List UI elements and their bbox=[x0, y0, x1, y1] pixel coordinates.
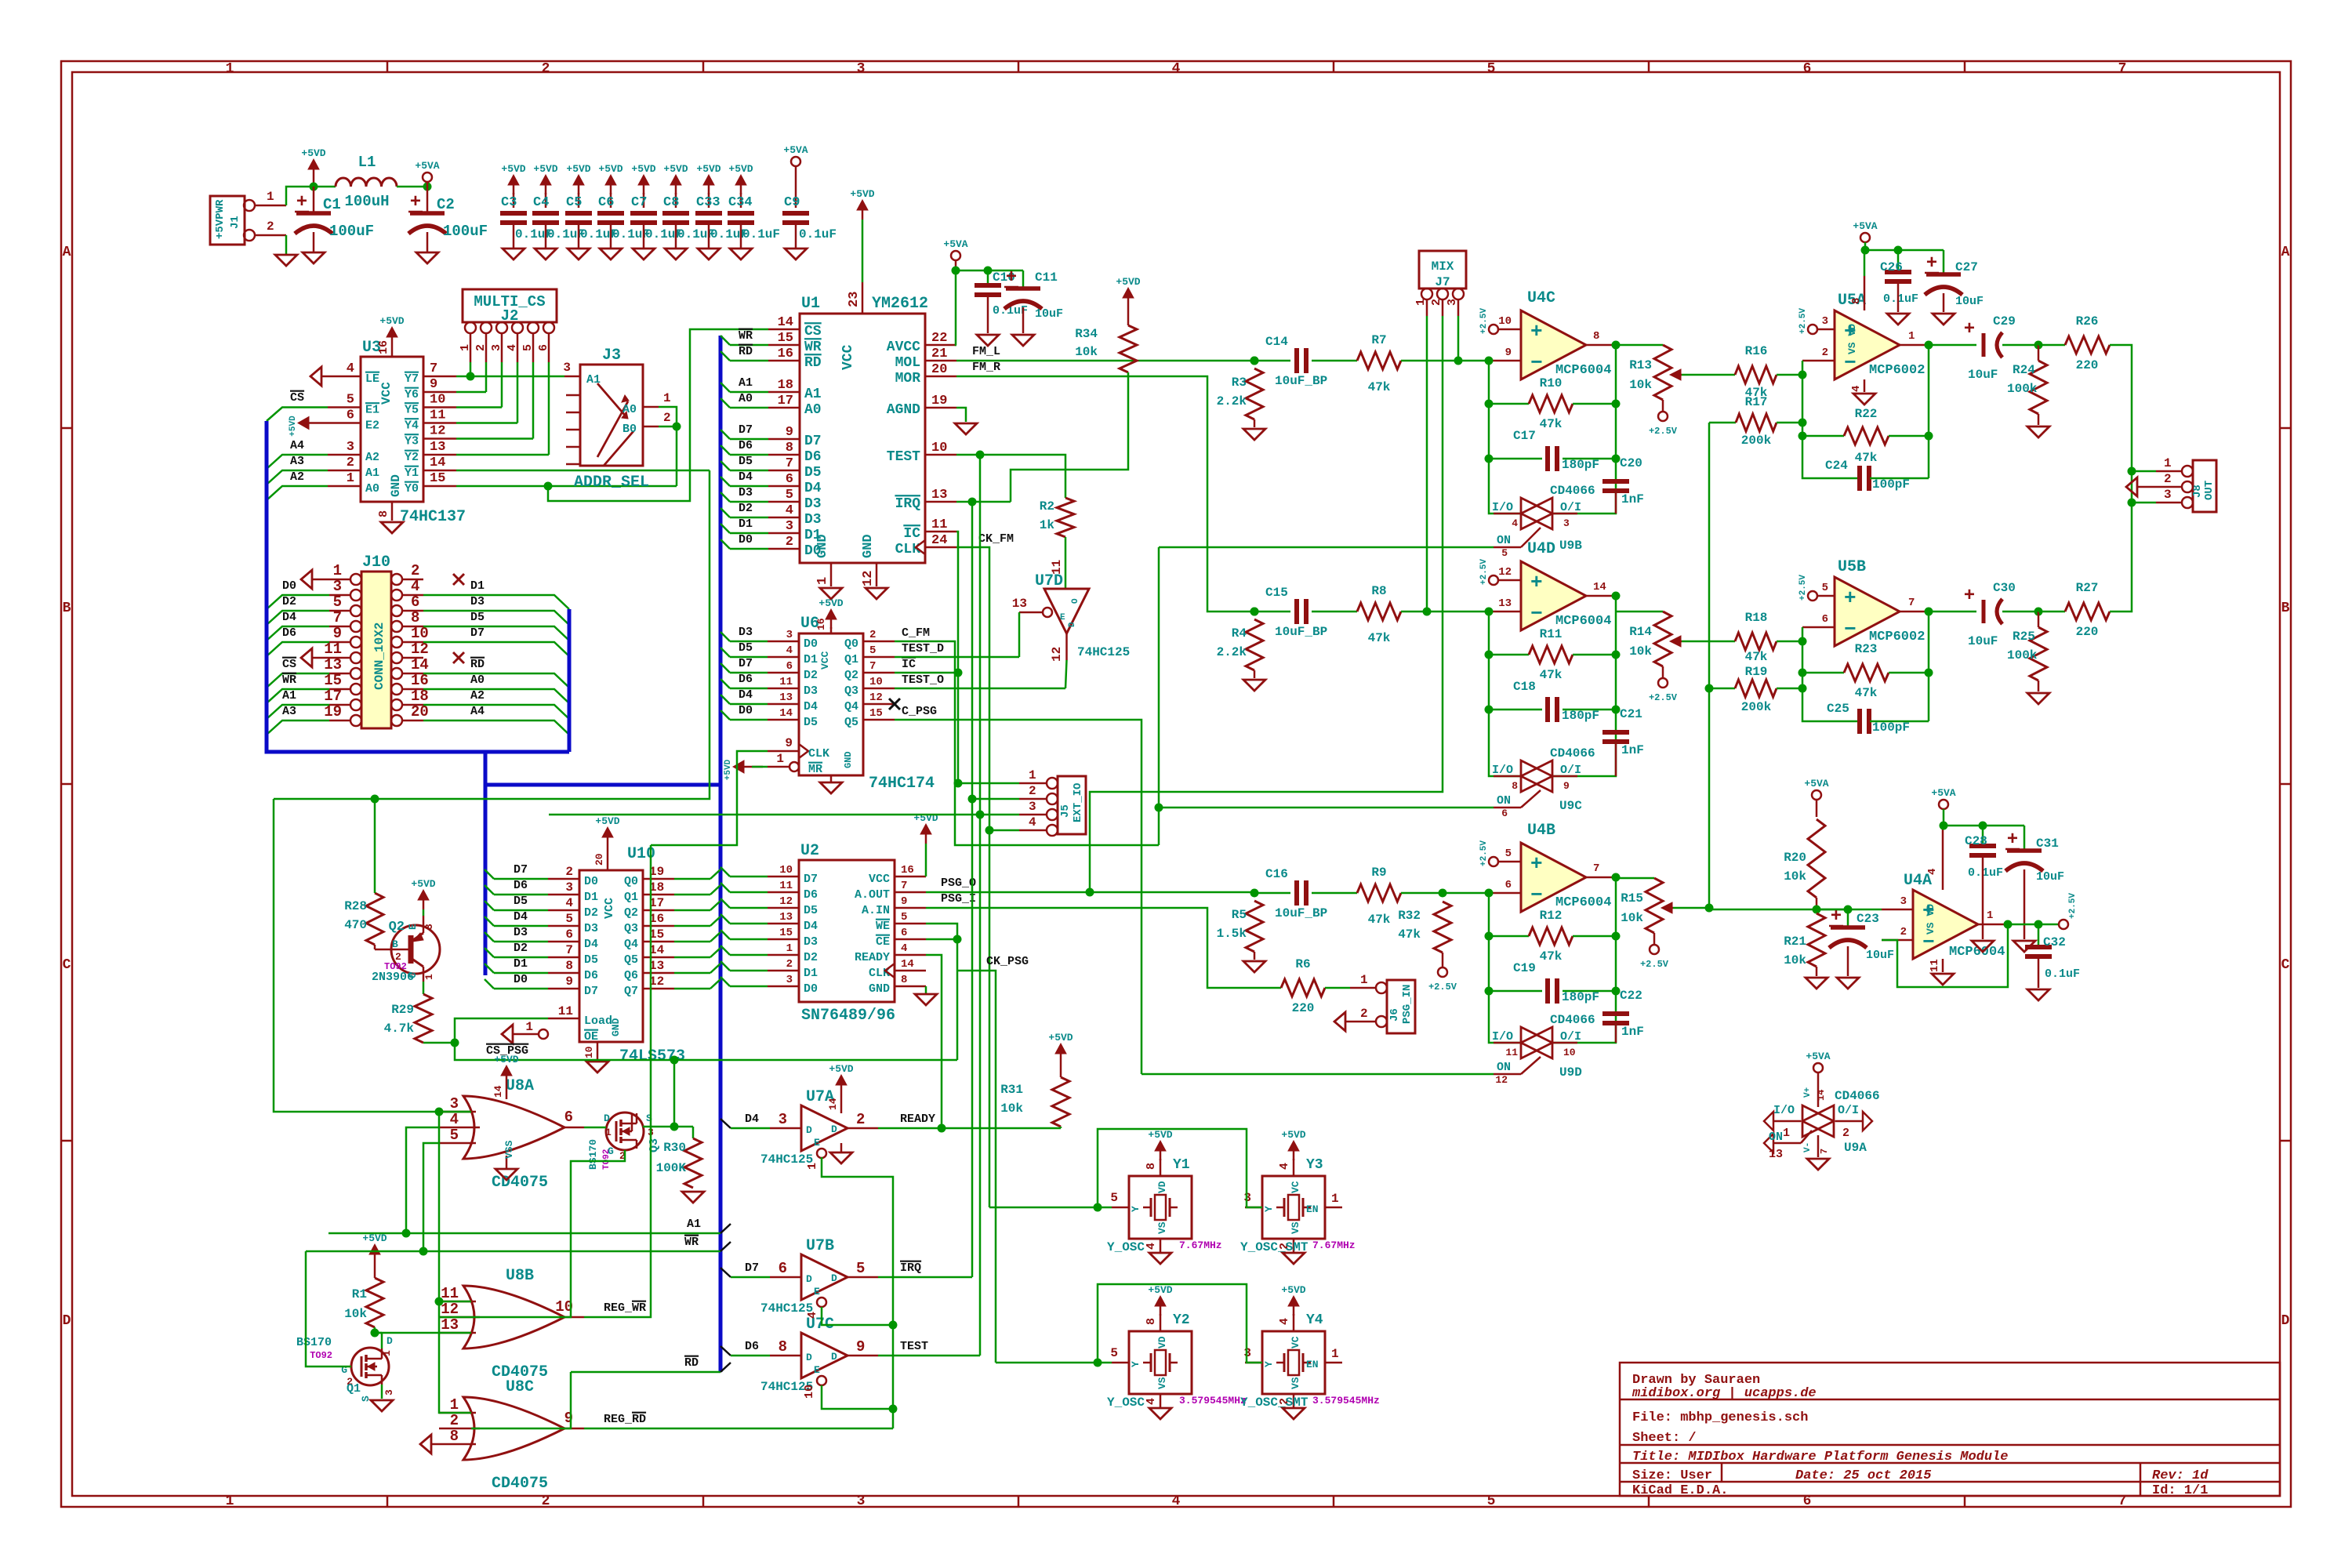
svg-text:Q0: Q0 bbox=[624, 875, 638, 888]
svg-text:2: 2 bbox=[1360, 1007, 1368, 1021]
resistor R1 10k bbox=[374, 1253, 376, 1264]
svg-text:D6: D6 bbox=[804, 449, 822, 465]
bus entry bbox=[710, 869, 720, 879]
wire bbox=[267, 486, 328, 500]
svg-text:D1: D1 bbox=[514, 957, 528, 971]
svg-text:FM_L: FM_L bbox=[972, 345, 1000, 358]
svg-text:O/I: O/I bbox=[1560, 1030, 1581, 1044]
resistor R6 220 bbox=[1281, 979, 1325, 996]
ground-flag at U3 LE bbox=[310, 367, 321, 386]
svg-text:4: 4 bbox=[1145, 1243, 1158, 1250]
svg-text:REG_: REG_ bbox=[604, 1301, 633, 1315]
svg-text:LE: LE bbox=[365, 372, 379, 386]
bus to U10 bbox=[484, 752, 488, 975]
wire J7.3 bbox=[1457, 316, 1460, 361]
capacitor C1 100uF bbox=[313, 187, 315, 213]
svg-text:A3: A3 bbox=[290, 455, 304, 468]
svg-text:I/O: I/O bbox=[1492, 501, 1513, 514]
svg-text:VD: VD bbox=[1156, 1181, 1168, 1193]
svg-text:8: 8 bbox=[1850, 298, 1863, 304]
U9A gnd pin7 bbox=[1817, 1135, 1820, 1157]
svg-text:100uF: 100uF bbox=[329, 223, 374, 240]
svg-text:2: 2 bbox=[1822, 347, 1828, 359]
svg-text:6: 6 bbox=[411, 593, 419, 611]
svg-text:MCP6002: MCP6002 bbox=[1869, 630, 1925, 644]
svg-text:10uF: 10uF bbox=[2036, 870, 2064, 884]
wire bbox=[267, 642, 329, 656]
resistor R23 47k bbox=[1802, 672, 1844, 674]
svg-text:+2.5V: +2.5V bbox=[1640, 959, 1669, 970]
svg-text:12: 12 bbox=[1050, 647, 1064, 662]
svg-text:U9C: U9C bbox=[1559, 799, 1582, 813]
junction bbox=[1925, 608, 1933, 616]
svg-text:5: 5 bbox=[565, 912, 573, 926]
bus right J10 bbox=[568, 609, 572, 752]
svg-text:5: 5 bbox=[1110, 1191, 1118, 1205]
svg-text:6: 6 bbox=[1803, 61, 1812, 77]
svg-text:3: 3 bbox=[1029, 800, 1036, 814]
wire U5A feedback right bbox=[1928, 345, 1930, 478]
U8A VSS pin7 bbox=[506, 1156, 508, 1168]
svg-text:4: 4 bbox=[506, 344, 519, 351]
svg-text:A4: A4 bbox=[290, 439, 304, 452]
ground bbox=[730, 249, 752, 260]
svg-text:10: 10 bbox=[869, 676, 883, 688]
svg-text:C22: C22 bbox=[1620, 989, 1642, 1003]
svg-text:10uF: 10uF bbox=[1955, 295, 1984, 308]
svg-text:+: + bbox=[410, 192, 421, 213]
wire ON bbox=[1521, 1057, 1541, 1074]
wire IRQ net bbox=[956, 501, 1011, 503]
svg-text:1: 1 bbox=[1360, 973, 1368, 987]
resistor R26 220 bbox=[2038, 344, 2065, 347]
svg-text:C11: C11 bbox=[1035, 270, 1058, 285]
svg-text:5: 5 bbox=[1501, 547, 1508, 559]
svg-text:20: 20 bbox=[931, 362, 947, 377]
svg-text:A2: A2 bbox=[470, 689, 485, 702]
svg-text:5: 5 bbox=[1822, 582, 1828, 594]
svg-text:8: 8 bbox=[1593, 330, 1599, 343]
svg-text:12: 12 bbox=[411, 641, 429, 658]
ground-flag J10 pin11 bbox=[301, 648, 312, 667]
svg-text:3: 3 bbox=[1900, 895, 1907, 908]
wire R15 wiper bbox=[1673, 907, 1709, 909]
svg-text:47k: 47k bbox=[1540, 417, 1563, 431]
svg-text:CK_FM: CK_FM bbox=[978, 532, 1014, 546]
wire TEST net bbox=[956, 455, 1065, 498]
junction bbox=[670, 1056, 679, 1065]
svg-text:10k: 10k bbox=[344, 1307, 367, 1321]
svg-text:1: 1 bbox=[381, 1350, 393, 1356]
wire AGND bbox=[956, 408, 966, 422]
junction bbox=[1612, 932, 1621, 941]
resistor R18 47k bbox=[1735, 633, 1777, 650]
svg-text:VC: VC bbox=[1290, 1181, 1301, 1193]
junction bbox=[1485, 400, 1494, 408]
svg-text:3: 3 bbox=[779, 1111, 787, 1128]
svg-text:C23: C23 bbox=[1857, 912, 1879, 926]
connector J10 CONN_10X2 bbox=[361, 572, 391, 728]
svg-text:3: 3 bbox=[490, 344, 503, 351]
svg-text:R31: R31 bbox=[1000, 1083, 1023, 1097]
wire bbox=[494, 925, 548, 927]
junction bbox=[889, 1321, 898, 1330]
bus entry D0 bbox=[720, 977, 730, 986]
wire Y7 to J3.A1 bbox=[456, 376, 564, 378]
svg-text:TO92: TO92 bbox=[602, 1149, 612, 1170]
wire bbox=[956, 270, 1023, 272]
svg-text:D: D bbox=[1068, 622, 1077, 627]
wire REG_WR bbox=[584, 845, 651, 1317]
wire bbox=[1065, 537, 1067, 589]
svg-text:3: 3 bbox=[333, 578, 342, 595]
capacitor C6 0.1uF bbox=[610, 193, 612, 208]
svg-text:D5: D5 bbox=[739, 641, 753, 655]
wire Y2-Y4 link bbox=[1098, 1284, 1262, 1363]
wire Y0 bbox=[456, 485, 677, 488]
ground bbox=[1806, 978, 1828, 989]
wire TEST_O bbox=[895, 688, 1065, 690]
svg-text:U5B: U5B bbox=[1838, 558, 1866, 576]
svg-text:5: 5 bbox=[347, 393, 354, 408]
svg-text:ON: ON bbox=[1497, 1061, 1511, 1074]
svg-text:5: 5 bbox=[521, 344, 535, 351]
svg-text:R11: R11 bbox=[1540, 627, 1563, 641]
buffer U7C 74HC125 bbox=[801, 1333, 848, 1378]
bus entry bbox=[710, 979, 720, 989]
svg-text:Y5: Y5 bbox=[405, 404, 419, 417]
svg-text:Y6: Y6 bbox=[405, 388, 419, 401]
svg-text:5: 5 bbox=[450, 1127, 459, 1144]
svg-text:ON: ON bbox=[1769, 1131, 1783, 1144]
svg-text:AGND: AGND bbox=[887, 402, 920, 418]
svg-text:C14: C14 bbox=[1265, 335, 1288, 349]
wire bbox=[285, 235, 288, 255]
svg-text:+5VD: +5VD bbox=[1281, 1284, 1305, 1296]
svg-text:21: 21 bbox=[931, 347, 947, 361]
svg-text:6: 6 bbox=[564, 1109, 573, 1126]
svg-text:GND: GND bbox=[389, 474, 403, 497]
svg-text:1: 1 bbox=[423, 974, 435, 980]
wire bbox=[267, 611, 329, 625]
svg-text:+2.5V: +2.5V bbox=[1479, 308, 1489, 334]
connector J7 MIX bbox=[1419, 251, 1466, 289]
svg-text:9: 9 bbox=[856, 1338, 865, 1356]
svg-text:VS: VS bbox=[1156, 1221, 1168, 1234]
svg-text:R8: R8 bbox=[1371, 584, 1386, 598]
svg-text:Q7: Q7 bbox=[624, 985, 638, 998]
junction bbox=[1798, 637, 1807, 646]
svg-text:+5VA: +5VA bbox=[1931, 787, 1955, 799]
svg-text:PSG_I: PSG_I bbox=[941, 892, 976, 906]
+2.5V below R13 bbox=[1662, 400, 1664, 412]
ground bbox=[2027, 426, 2049, 437]
svg-text:C33: C33 bbox=[696, 195, 720, 210]
svg-text:220: 220 bbox=[1292, 1001, 1315, 1015]
wire PSG_I bbox=[926, 908, 1281, 988]
wire bbox=[494, 878, 548, 880]
junction bbox=[984, 267, 993, 275]
svg-text:9: 9 bbox=[786, 425, 793, 440]
svg-text:2.2k: 2.2k bbox=[1217, 394, 1247, 408]
svg-text:D2: D2 bbox=[282, 595, 296, 608]
svg-text:VCC: VCC bbox=[869, 873, 890, 886]
svg-text:10uF_BP: 10uF_BP bbox=[1275, 374, 1327, 388]
power +5VD for C7 bbox=[643, 183, 645, 194]
svg-text:+2.5V: +2.5V bbox=[1649, 426, 1678, 437]
power +5VD U7A pin14 bbox=[840, 1083, 843, 1094]
svg-text:3: 3 bbox=[857, 1494, 866, 1509]
wire bbox=[267, 626, 329, 641]
capacitor C27 10uF bbox=[1943, 250, 1945, 274]
svg-text:D5: D5 bbox=[804, 465, 822, 481]
wire C_FM bbox=[895, 641, 1159, 845]
svg-text:R19: R19 bbox=[1745, 665, 1768, 679]
svg-text:15: 15 bbox=[779, 927, 793, 939]
resistor R9 47k bbox=[1312, 892, 1357, 895]
svg-text:15: 15 bbox=[778, 331, 793, 346]
svg-text:5: 5 bbox=[1505, 848, 1512, 860]
svg-text:1: 1 bbox=[450, 1396, 459, 1414]
junction bbox=[544, 482, 553, 491]
wire bbox=[730, 703, 768, 706]
wire FM_L bbox=[956, 360, 1254, 362]
wire bbox=[494, 941, 548, 943]
svg-text:IRQ: IRQ bbox=[900, 1261, 921, 1275]
svg-text:2: 2 bbox=[1900, 926, 1907, 938]
svg-text:5: 5 bbox=[1110, 1346, 1118, 1360]
wire U7B out IRQ bbox=[878, 1276, 972, 1279]
svg-text:C34: C34 bbox=[728, 195, 753, 210]
svg-text:CS: CS bbox=[290, 391, 304, 405]
svg-text:+5VD: +5VD bbox=[598, 163, 622, 175]
wire J5.4 bbox=[989, 829, 1019, 832]
oscillator Y1 bbox=[1129, 1176, 1192, 1239]
svg-text:Y2: Y2 bbox=[405, 451, 419, 464]
svg-text:E1: E1 bbox=[365, 404, 379, 417]
U6 CLK pin9 bbox=[768, 750, 799, 753]
svg-text:+5VD: +5VD bbox=[850, 188, 874, 200]
ground bbox=[955, 423, 977, 434]
svg-text:200k: 200k bbox=[1741, 700, 1772, 714]
svg-text:OE: OE bbox=[584, 1030, 598, 1044]
bus entry D3 bbox=[720, 930, 730, 939]
+2.5V at U4B+ bbox=[1489, 857, 1498, 866]
svg-text:0.1uF: 0.1uF bbox=[2045, 967, 2080, 981]
svg-text:4: 4 bbox=[786, 503, 793, 518]
wire J8.3 bbox=[2132, 502, 2156, 504]
wire CS to bus bbox=[267, 408, 328, 422]
svg-text:+5VD: +5VD bbox=[631, 163, 655, 175]
op-amp U4D MCP6004 bbox=[1521, 561, 1586, 630]
resistor R28 470 bbox=[366, 893, 383, 945]
svg-text:18: 18 bbox=[411, 688, 429, 705]
wire U4A feedback bbox=[1882, 924, 2008, 987]
svg-text:8: 8 bbox=[1512, 780, 1518, 792]
svg-text:1: 1 bbox=[806, 1163, 819, 1170]
or-gate U8B CD4075 bbox=[463, 1286, 564, 1348]
svg-text:D0: D0 bbox=[514, 973, 528, 986]
ground bbox=[1837, 978, 1859, 989]
clock wedge U1 CLK bbox=[916, 540, 925, 554]
svg-text:AVCC: AVCC bbox=[887, 339, 920, 355]
U9A ON pin bbox=[1801, 1131, 1812, 1143]
analog switch U9D CD4066 bbox=[1521, 1027, 1552, 1058]
connector J1 +5VPWR bbox=[210, 196, 245, 245]
wire bbox=[730, 985, 768, 988]
svg-text:D7: D7 bbox=[739, 423, 753, 437]
wire bbox=[274, 798, 375, 800]
svg-text:14: 14 bbox=[1816, 1090, 1827, 1101]
wire CS to U8A bbox=[274, 799, 471, 1112]
svg-text:1: 1 bbox=[776, 752, 784, 766]
wire bbox=[730, 501, 768, 503]
wire WE/CE bbox=[926, 924, 957, 1060]
svg-text:VSS: VSS bbox=[503, 1140, 515, 1159]
svg-text:8: 8 bbox=[1145, 1318, 1158, 1325]
svg-text:8: 8 bbox=[411, 609, 419, 626]
svg-text:16: 16 bbox=[411, 672, 429, 689]
junction bbox=[1485, 987, 1494, 996]
svg-text:A: A bbox=[2281, 245, 2290, 260]
svg-text:CS: CS bbox=[804, 324, 822, 339]
svg-text:Q2: Q2 bbox=[844, 669, 858, 682]
svg-text:R18: R18 bbox=[1745, 611, 1768, 625]
svg-text:+5VA: +5VA bbox=[943, 238, 967, 250]
svg-text:7: 7 bbox=[333, 609, 342, 626]
junction bbox=[419, 1247, 428, 1256]
bus entry D5 bbox=[720, 898, 730, 908]
svg-text:7: 7 bbox=[1819, 1149, 1830, 1154]
wire Q1 source to gnd bbox=[381, 1385, 383, 1399]
svg-text:13: 13 bbox=[441, 1316, 459, 1334]
potentiometer R13 10k bbox=[1616, 344, 1663, 347]
svg-text:−: − bbox=[1530, 351, 1543, 375]
svg-text:5: 5 bbox=[333, 593, 342, 611]
svg-text:FM_R: FM_R bbox=[972, 361, 1000, 374]
svg-text:10: 10 bbox=[803, 1385, 816, 1399]
svg-text:3: 3 bbox=[1822, 315, 1828, 328]
svg-text:U4D: U4D bbox=[1527, 540, 1555, 558]
svg-text:D4: D4 bbox=[282, 611, 296, 624]
svg-text:10: 10 bbox=[411, 625, 429, 642]
svg-text:+5VA: +5VA bbox=[1806, 1051, 1830, 1062]
svg-text:7: 7 bbox=[786, 456, 793, 471]
wire J5.2 bbox=[972, 798, 1019, 800]
capacitor C9 0.1uF bbox=[795, 166, 797, 208]
resistor R20 10k bbox=[1812, 790, 1821, 800]
svg-text:A2: A2 bbox=[290, 470, 304, 484]
bus entry bbox=[485, 869, 494, 879]
svg-text:R32: R32 bbox=[1398, 909, 1421, 923]
svg-text:C9: C9 bbox=[784, 195, 800, 210]
svg-text:1nF: 1nF bbox=[1621, 1025, 1644, 1039]
svg-text:CE: CE bbox=[876, 935, 890, 949]
svg-text:R10: R10 bbox=[1540, 376, 1563, 390]
svg-text:U9D: U9D bbox=[1559, 1065, 1582, 1080]
power +5VD bbox=[313, 168, 315, 179]
wire bbox=[730, 688, 768, 690]
svg-text:+2.5V: +2.5V bbox=[2068, 893, 2078, 919]
junction bbox=[1155, 804, 1163, 812]
svg-text:D: D bbox=[831, 1351, 837, 1363]
U6 MR pin1 bbox=[789, 762, 799, 771]
svg-text:CD4075: CD4075 bbox=[492, 1174, 548, 1192]
svg-text:15: 15 bbox=[869, 707, 883, 720]
wire bbox=[674, 909, 710, 912]
svg-text:14: 14 bbox=[901, 958, 914, 971]
svg-text:47k: 47k bbox=[1398, 927, 1421, 942]
svg-text:10: 10 bbox=[583, 1046, 595, 1058]
svg-text:1: 1 bbox=[459, 344, 472, 351]
capacitor C21 1nF bbox=[1602, 730, 1629, 735]
bus entry bbox=[720, 710, 730, 720]
bus entry bbox=[720, 1346, 731, 1356]
ground bbox=[1853, 394, 1875, 405]
power +5VA for C9 bbox=[791, 157, 800, 166]
junction bbox=[1485, 608, 1494, 616]
svg-text:+5VD: +5VD bbox=[289, 416, 298, 437]
+2.5V below R15 bbox=[1653, 933, 1656, 945]
wire J3 outputs tied bbox=[659, 407, 677, 486]
svg-text:4: 4 bbox=[1278, 1318, 1291, 1325]
wire bbox=[423, 642, 569, 656]
wire RD to U8C.2 bbox=[471, 1372, 571, 1428]
svg-text:J5: J5 bbox=[1059, 804, 1072, 818]
svg-text:1k: 1k bbox=[1040, 518, 1055, 532]
svg-text:13: 13 bbox=[430, 440, 445, 455]
svg-text:10uF_BP: 10uF_BP bbox=[1275, 625, 1327, 639]
wire R13 wiper to R16 bbox=[1682, 374, 1735, 376]
bus to U1 bbox=[485, 783, 720, 787]
wire A1 row bbox=[328, 1232, 720, 1235]
ground bbox=[1933, 314, 1955, 325]
svg-text:47k: 47k bbox=[1855, 686, 1878, 700]
svg-text:74HC137: 74HC137 bbox=[400, 508, 466, 526]
svg-text:EN: EN bbox=[1306, 1359, 1319, 1370]
svg-text:74HC125: 74HC125 bbox=[1077, 645, 1130, 659]
svg-text:C5: C5 bbox=[566, 195, 582, 210]
svg-text:R5: R5 bbox=[1232, 908, 1247, 922]
IC U6 74HC174 bbox=[799, 633, 863, 775]
connector J5 EXT_IO bbox=[1058, 776, 1086, 834]
svg-text:R22: R22 bbox=[1855, 407, 1878, 421]
capacitor C2 100uF bbox=[426, 187, 429, 213]
svg-text:D2: D2 bbox=[739, 502, 753, 515]
U5A power pins bbox=[1864, 276, 1866, 310]
wire Y1 bbox=[456, 470, 710, 472]
bus entry bbox=[710, 964, 720, 973]
ground bbox=[371, 1400, 393, 1411]
no-connect U6 Q4 bbox=[889, 699, 900, 710]
svg-text:D6: D6 bbox=[739, 673, 753, 686]
wire bbox=[673, 1060, 676, 1127]
U3 pin8 ground bbox=[391, 502, 394, 521]
junction bbox=[1086, 888, 1094, 897]
wire bbox=[286, 187, 314, 205]
svg-text:R7: R7 bbox=[1371, 333, 1386, 347]
wire Y4 bbox=[456, 422, 517, 424]
junction bbox=[1094, 1203, 1102, 1212]
svg-text:47k: 47k bbox=[1540, 668, 1563, 682]
wire Y1.5 net bbox=[1098, 1207, 1112, 1209]
resistor R30 100K bbox=[692, 1127, 695, 1138]
svg-text:midibox.org | ucapps.de: midibox.org | ucapps.de bbox=[1632, 1386, 1817, 1401]
capacitor C7 0.1uF bbox=[643, 193, 645, 208]
svg-text:6: 6 bbox=[537, 344, 550, 351]
junction bbox=[1925, 341, 1933, 350]
svg-text:D5: D5 bbox=[804, 904, 818, 917]
